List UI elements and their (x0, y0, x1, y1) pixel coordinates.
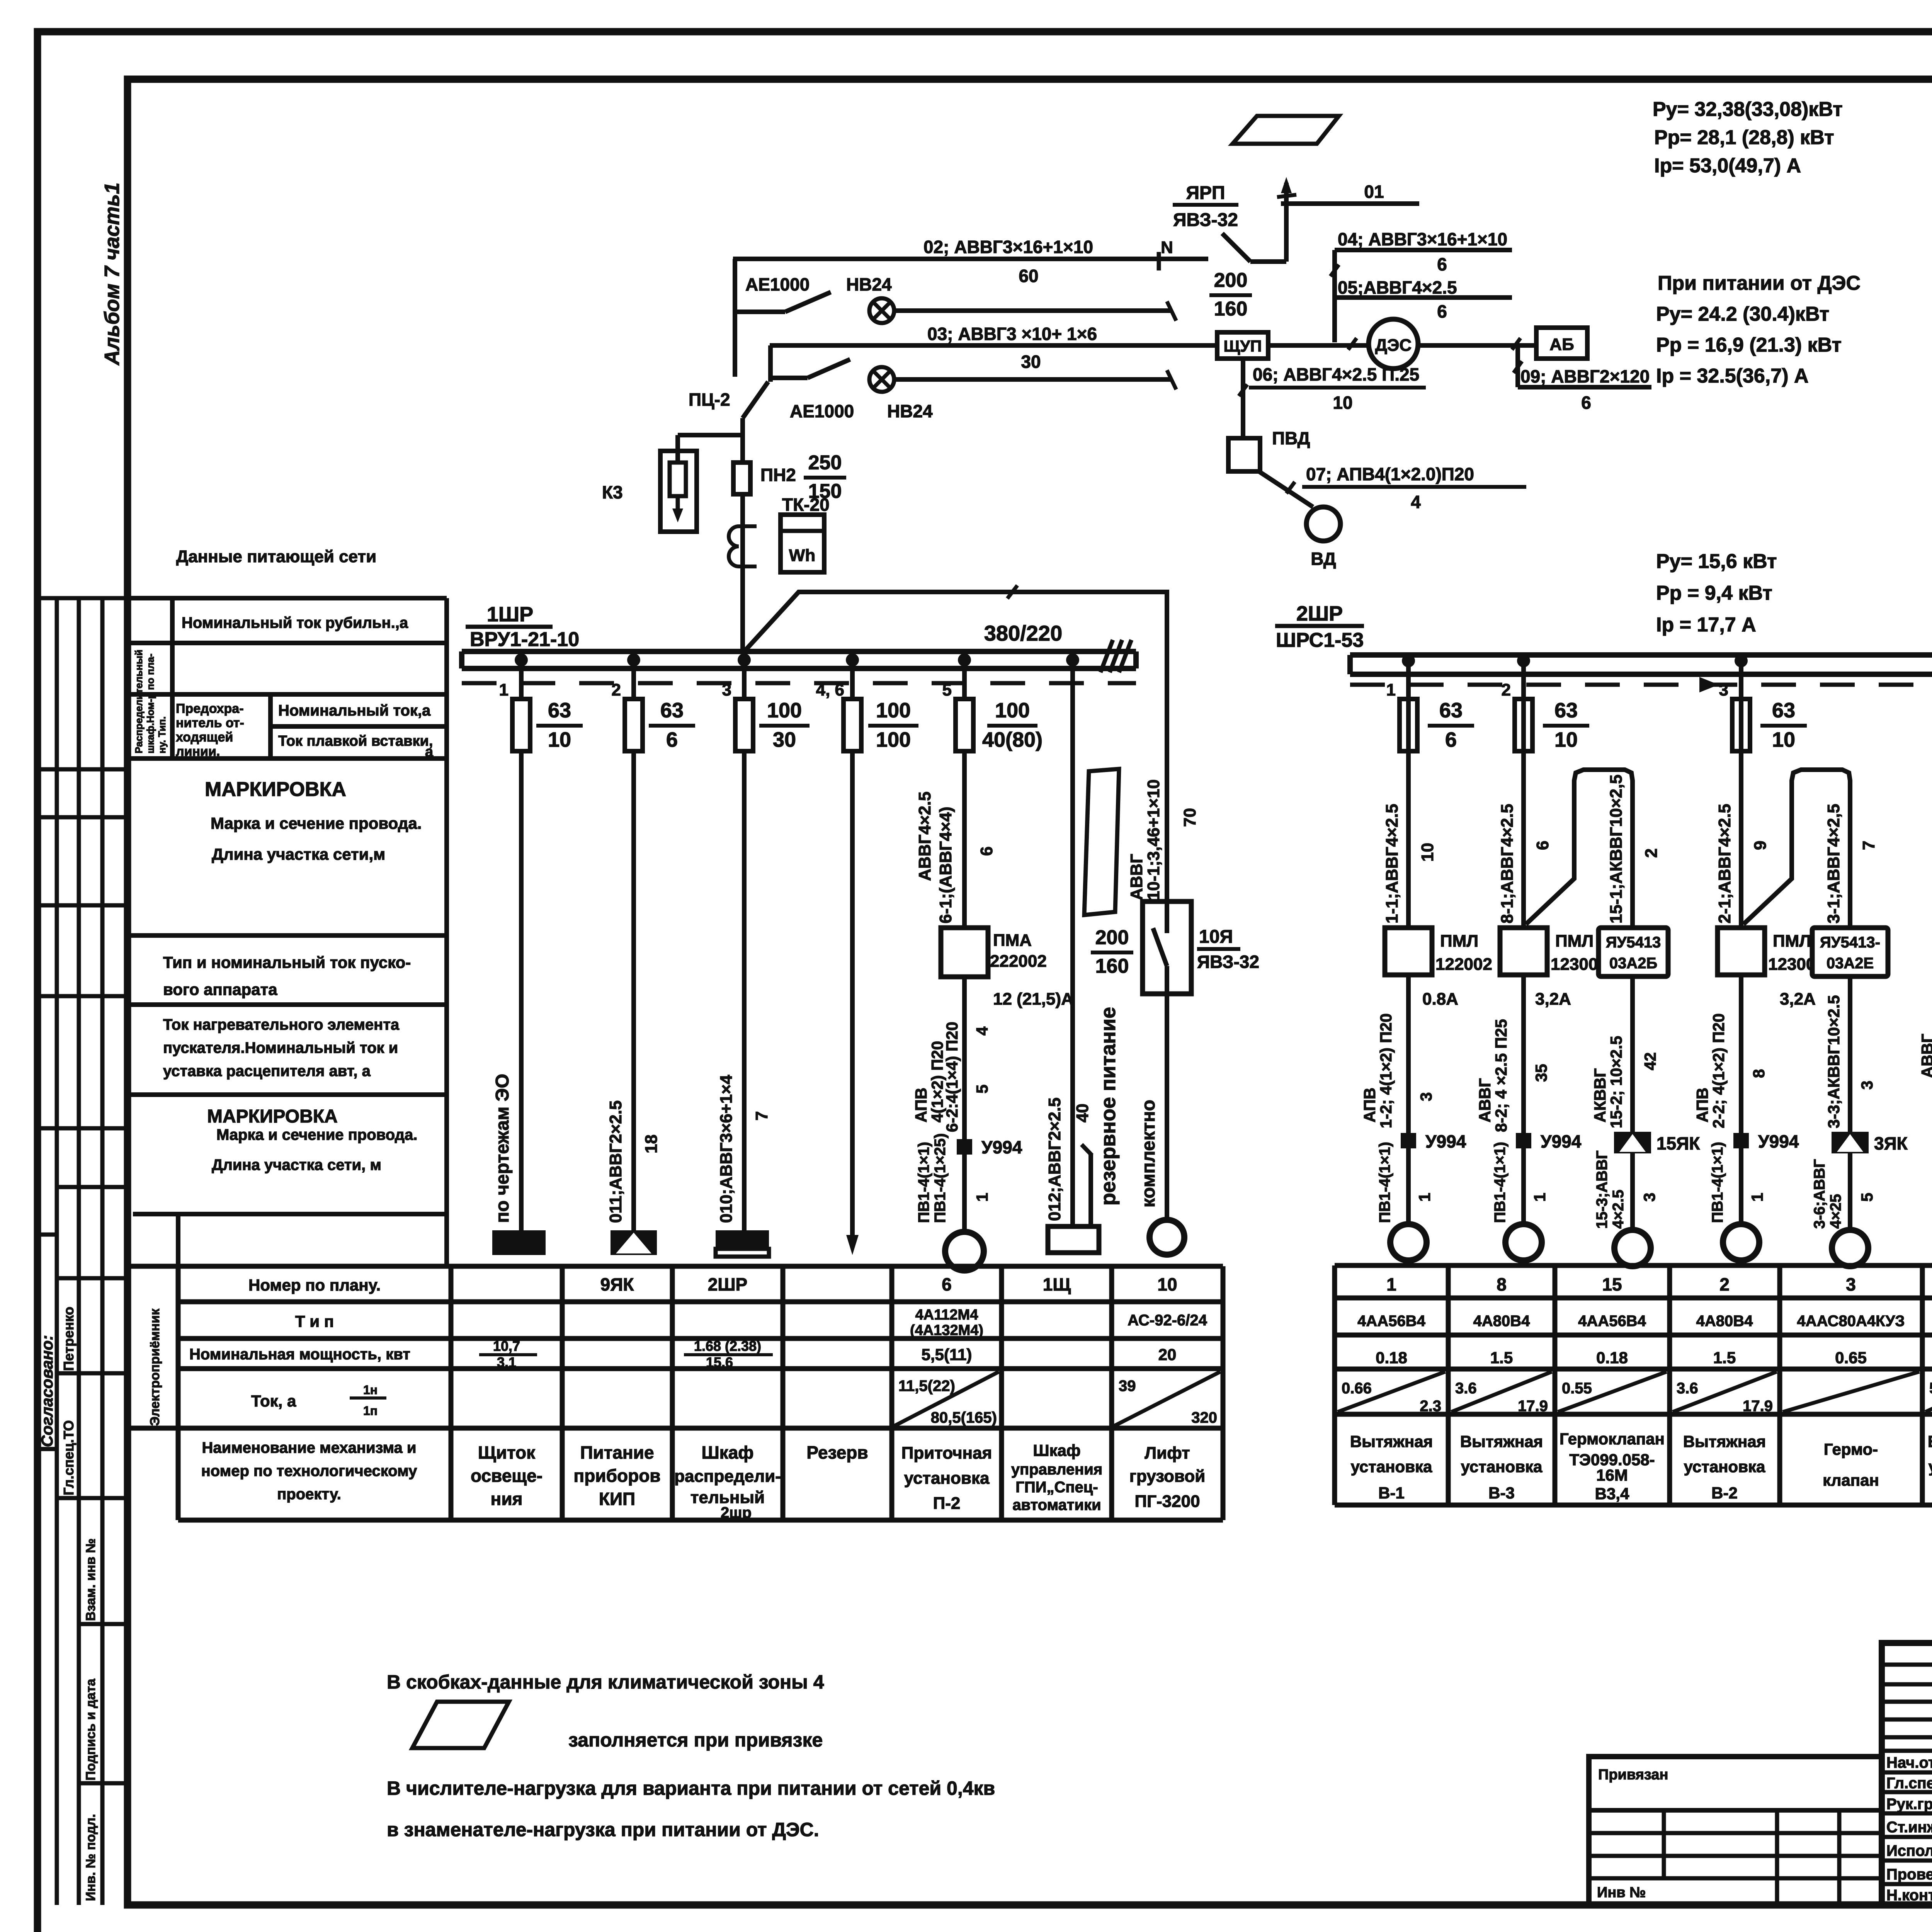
svg-text:2: 2 (1642, 849, 1661, 858)
box ЯУ5413-03А2Б (1599, 928, 1668, 976)
svg-text:Iр = 32.5(36,7) А: Iр = 32.5(36,7) А (1656, 365, 1809, 387)
svg-text:70: 70 (1180, 808, 1199, 827)
svg-text:0.55: 0.55 (1562, 1380, 1592, 1397)
box ЩУП (1217, 332, 1268, 359)
svg-text:установка: установка (904, 1469, 990, 1488)
svg-text:ПМА: ПМА (993, 931, 1032, 950)
svg-text:5: 5 (973, 1085, 991, 1094)
wire feeder5 mid (962, 977, 967, 1232)
wire drop 06 from ЩУП (1241, 359, 1245, 438)
svg-text:122002: 122002 (1435, 955, 1492, 974)
svg-text:Ток нагревательного элемента: Ток нагревательного элемента (163, 1016, 400, 1033)
svg-text:Ру= 24.2 (30.4)кВт: Ру= 24.2 (30.4)кВт (1656, 303, 1829, 325)
busbar 2ШР (1350, 652, 1932, 658)
svg-text:В3,4: В3,4 (1595, 1485, 1629, 1503)
svg-text:03А2Е: 03А2Е (1827, 955, 1874, 972)
svg-text:3: 3 (1846, 1274, 1856, 1294)
wire branch3 lower (1848, 976, 1852, 1230)
svg-text:3.6: 3.6 (1455, 1380, 1477, 1397)
svg-text:3ЯК: 3ЯК (1874, 1133, 1908, 1153)
svg-text:Номинальный ток,а: Номинальный ток,а (278, 702, 431, 719)
svg-text:Рр= 28,1 (28,8) кВт: Рр= 28,1 (28,8) кВт (1654, 126, 1834, 149)
svg-text:3: 3 (1417, 1092, 1435, 1101)
svg-text:3,1: 3,1 (497, 1354, 516, 1370)
node bus1 feeder 1Щ (1066, 653, 1079, 667)
svg-text:5.7: 5.7 (1929, 1380, 1932, 1397)
node bus1 feeder46 (846, 653, 859, 667)
svg-text:10Я: 10Я (1199, 927, 1233, 947)
svg-text:17.9: 17.9 (1743, 1398, 1773, 1415)
svg-text:ЯВЗ-32: ЯВЗ-32 (1197, 952, 1259, 972)
svg-text:63: 63 (1439, 699, 1463, 722)
wire line 03 to ЩУП (770, 343, 1217, 348)
svg-text:2.3: 2.3 (1420, 1398, 1441, 1415)
svg-text:ПВ1-4(1×25): ПВ1-4(1×25) (932, 1133, 949, 1223)
svg-text:4, 6: 4, 6 (816, 680, 844, 699)
svg-text:1: 1 (1748, 1193, 1766, 1202)
svg-text:клапан: клапан (1823, 1471, 1879, 1489)
panel Щиток освещения symbol (492, 1230, 546, 1255)
svg-text:4ААС80А4КУЗ: 4ААС80А4КУЗ (1797, 1313, 1905, 1330)
meter Wh box (781, 515, 824, 572)
svg-text:03; АВВГ3 ×10+ 1×6: 03; АВВГ3 ×10+ 1×6 (927, 324, 1097, 344)
wire drop 03 to node A (768, 345, 773, 382)
svg-text:АПВ: АПВ (1693, 1088, 1711, 1122)
switch ПЦ-2 (743, 382, 768, 418)
svg-text:ШРС1-53: ШРС1-53 (1276, 629, 1364, 651)
svg-text:15ЯК: 15ЯК (1656, 1133, 1700, 1153)
svg-text:Исполн.: Исполн. (1886, 1842, 1932, 1859)
left margin column strip (36, 598, 128, 1905)
switch box 10Я (1143, 901, 1191, 994)
generator ДЭС (1369, 319, 1418, 369)
svg-text:Номинальный ток рубильн.,а: Номинальный ток рубильн.,а (182, 614, 408, 631)
svg-text:4АА56В4: 4АА56В4 (1357, 1313, 1425, 1330)
fuse feeder46 (844, 699, 861, 751)
svg-text:Марка и сечение провода.: Марка и сечение провода. (216, 1126, 417, 1143)
svg-text:1-1;АВВГ4×2.5: 1-1;АВВГ4×2.5 (1383, 804, 1401, 923)
svg-text:06; АВВГ4×2.5 П.25: 06; АВВГ4×2.5 П.25 (1253, 364, 1419, 384)
right equipment table grid (1335, 1265, 1932, 1505)
fuse ПН2 (733, 463, 750, 494)
svg-text:1.68 (2.38): 1.68 (2.38) (694, 1338, 761, 1354)
svg-text:3: 3 (722, 680, 731, 699)
svg-text:Iр= 53,0(49,7) А: Iр= 53,0(49,7) А (1654, 155, 1801, 177)
left data table grid (128, 598, 447, 1266)
svg-text:1.5: 1.5 (1490, 1349, 1513, 1367)
node bus1 feeder1 (515, 653, 528, 667)
svg-text:ВРУ1-21-10: ВРУ1-21-10 (470, 628, 579, 651)
svg-text:4: 4 (1411, 492, 1421, 512)
wire branch15 lower (1630, 976, 1635, 1230)
svg-text:8: 8 (1750, 1069, 1768, 1078)
svg-text:НВ24: НВ24 (887, 401, 933, 421)
valve unit 3ЯК (1832, 1132, 1869, 1153)
wire feeder46 reserve (850, 660, 855, 1235)
svg-text:222002: 222002 (990, 952, 1047, 971)
svg-text:АКВВГ: АКВВГ (1591, 1068, 1609, 1122)
svg-text:В-2: В-2 (1711, 1484, 1738, 1502)
junction У994 b8 (1516, 1133, 1531, 1148)
svg-text:МАРКИРОВКА: МАРКИРОВКА (205, 778, 346, 801)
svg-text:В скобках-данные для климатиче: В скобках-данные для климатической зоны … (387, 1671, 824, 1693)
svg-text:15-1;АКВВГ10×2,5: 15-1;АКВВГ10×2,5 (1607, 774, 1626, 923)
motor ВД (1306, 507, 1340, 541)
motor П-2 (945, 1232, 984, 1270)
node bus2 feeder1 (1402, 654, 1415, 667)
motor В-2 (1723, 1224, 1759, 1260)
contactor ПМЛ branch1 (1385, 928, 1432, 975)
svg-text:Питание: Питание (580, 1442, 654, 1463)
svg-text:12 (21,5)А: 12 (21,5)А (993, 990, 1073, 1009)
svg-text:Петренко: Петренко (61, 1307, 77, 1371)
wire reserve stub into 1Щ (1088, 1154, 1093, 1226)
svg-text:грузовой: грузовой (1129, 1467, 1206, 1486)
svg-text:1Щ: 1Щ (1043, 1274, 1071, 1294)
svg-text:1: 1 (1386, 680, 1396, 699)
svg-text:63: 63 (660, 699, 684, 722)
svg-text:Рр = 9,4 кВт: Рр = 9,4 кВт (1656, 582, 1772, 604)
node bus2 feeder2 (1517, 654, 1530, 667)
fuse bus2 feeder3 (1732, 699, 1750, 751)
contactor ПМА feeder5 (941, 928, 988, 977)
svg-text:ну. Тип.: ну. Тип. (156, 716, 168, 753)
svg-text:42: 42 (1641, 1052, 1659, 1070)
wire feeder 1Щ (1070, 668, 1075, 1226)
svg-text:ВД: ВД (1311, 549, 1336, 569)
svg-text:3: 3 (1719, 680, 1728, 699)
left equipment table grid (128, 1266, 1223, 1520)
svg-text:в знаменателе-нагрузка при: в знаменателе-нагрузка при питании от ДЭ… (387, 1819, 819, 1840)
svg-text:200: 200 (1095, 927, 1129, 949)
svg-text:5: 5 (1858, 1193, 1876, 1202)
wire riser ЯРП with arrow (1284, 183, 1289, 262)
fuse feeder5 (956, 699, 973, 751)
tap loop to branch3 (1743, 770, 1850, 928)
svg-text:80,5(165): 80,5(165) (931, 1409, 997, 1426)
svg-text:Согласовано:: Согласовано: (38, 1335, 56, 1447)
busbar1 dashed outline (462, 681, 1136, 685)
svg-text:установка: установка (1929, 1458, 1932, 1476)
svg-text:1п: 1п (363, 1404, 378, 1418)
switch ЯРП blade (1222, 233, 1250, 262)
svg-text:В числителе-нагрузка для вари: В числителе-нагрузка для варианта при пи… (387, 1777, 995, 1799)
svg-text:Предохра-: Предохра- (176, 701, 244, 716)
svg-text:15-3;АВВГ: 15-3;АВВГ (1594, 1150, 1611, 1229)
svg-text:Взам. инв №: Взам. инв № (83, 1538, 98, 1621)
motor branch3 (1832, 1230, 1868, 1266)
svg-text:4А80В4: 4А80В4 (1473, 1313, 1531, 1330)
svg-text:07; АПВ4(1×2.0)П20: 07; АПВ4(1×2.0)П20 (1306, 464, 1474, 484)
svg-text:шкаф.Ном-р по пла-: шкаф.Ном-р по пла- (145, 653, 156, 753)
panel 1Щ symbol (1048, 1226, 1099, 1253)
svg-text:ПМЛ: ПМЛ (1555, 932, 1594, 951)
svg-text:6: 6 (1533, 841, 1552, 850)
motor В-3 (1505, 1224, 1542, 1260)
svg-text:100: 100 (876, 699, 911, 722)
svg-text:10: 10 (548, 728, 571, 751)
svg-text:заполняется при привязке: заполняется при привязке (568, 1729, 823, 1751)
motor branch15 (1614, 1230, 1651, 1266)
svg-text:7: 7 (752, 1111, 771, 1121)
motor ПГ-3200 (1150, 1220, 1184, 1255)
svg-text:ЯВЗ-32: ЯВЗ-32 (1173, 210, 1238, 230)
svg-text:Ру= 15,6 кВт: Ру= 15,6 кВт (1656, 550, 1777, 573)
svg-text:40: 40 (1073, 1104, 1092, 1122)
fuse bus2 feeder1 (1400, 699, 1417, 751)
svg-text:АВВГ: АВВГ (1476, 1078, 1494, 1122)
wire line 04 (1335, 248, 1512, 252)
svg-text:ТК-20: ТК-20 (782, 495, 830, 515)
svg-text:10: 10 (1157, 1274, 1177, 1294)
svg-text:7: 7 (1859, 841, 1878, 850)
svg-text:3-3;АКВВГ10×2.5: 3-3;АКВВГ10×2.5 (1825, 995, 1843, 1128)
wire drop from 02 to ПЦ-2 (733, 259, 737, 377)
svg-text:ПВ1-4(1×1): ПВ1-4(1×1) (1709, 1142, 1726, 1223)
svg-text:N: N (1161, 238, 1173, 257)
svg-text:100: 100 (995, 699, 1030, 722)
svg-text:Шкаф: Шкаф (701, 1442, 753, 1463)
wire feeder5 upper (962, 668, 967, 928)
svg-text:пускателя.Номинальный ток и: пускателя.Номинальный ток и (163, 1039, 398, 1056)
svg-text:10,7: 10,7 (493, 1338, 520, 1354)
svg-text:АВВГ: АВВГ (1918, 1034, 1932, 1078)
svg-text:1: 1 (1415, 1193, 1434, 1202)
lamp НВ24 lower (869, 367, 894, 392)
svg-text:У994: У994 (981, 1137, 1022, 1157)
svg-text:16М: 16М (1596, 1466, 1628, 1484)
wire ДЭС to АБ (1418, 343, 1536, 348)
fuse feeder2 (625, 699, 643, 751)
svg-text:4×2.5: 4×2.5 (1610, 1190, 1627, 1229)
svg-text:6-1;(АВВГ4×4): 6-1;(АВВГ4×4) (936, 807, 955, 923)
svg-text:02; АВВГ3×16+1×10: 02; АВВГ3×16+1×10 (923, 237, 1093, 257)
svg-text:АПВ: АПВ (1361, 1088, 1379, 1122)
wire branch plan8 (1521, 661, 1526, 1224)
svg-text:15: 15 (1602, 1274, 1622, 1294)
fuse feeder1 (512, 699, 530, 751)
svg-text:установка: установка (1684, 1458, 1765, 1476)
note parallelogram (412, 1702, 509, 1748)
svg-text:У994: У994 (1541, 1131, 1582, 1151)
svg-text:2: 2 (612, 680, 621, 699)
wire ПВД to ВД (1258, 471, 1313, 507)
svg-text:АВВГ4×2.5: АВВГ4×2.5 (915, 791, 934, 881)
svg-text:1ШР: 1ШР (487, 603, 533, 626)
node bus1 feeder5 (958, 653, 971, 667)
svg-text:АЕ1000: АЕ1000 (790, 401, 854, 421)
svg-text:10: 10 (1772, 728, 1795, 751)
svg-text:Привязан: Привязан (1598, 1767, 1668, 1783)
svg-text:резервное питание: резервное питание (1097, 1007, 1120, 1206)
svg-text:10: 10 (1554, 728, 1578, 751)
svg-text:ПЦ-2: ПЦ-2 (689, 389, 730, 410)
contactor ПМЛ branch2 (1718, 928, 1765, 975)
svg-text:АВВГ: АВВГ (1127, 854, 1146, 900)
svg-text:Марка и сечение провода.: Марка и сечение провода. (211, 814, 422, 832)
box АБ (1536, 328, 1587, 359)
svg-text:4А112М4: 4А112М4 (915, 1307, 978, 1323)
svg-text:ПН2: ПН2 (760, 465, 796, 485)
svg-text:Длина участка сети,м: Длина участка сети,м (212, 845, 385, 863)
svg-text:2ШР: 2ШР (708, 1274, 748, 1294)
svg-text:Рук.груп: Рук.груп (1886, 1796, 1932, 1813)
svg-text:ПМЛ: ПМЛ (1773, 932, 1811, 951)
svg-text:8-2; 4 ×2.5 П25: 8-2; 4 ×2.5 П25 (1492, 1019, 1510, 1132)
svg-text:АЕ1000: АЕ1000 (745, 274, 810, 294)
svg-text:Гл.спец.: Гл.спец. (1886, 1775, 1932, 1792)
svg-text:АС-92-6/24: АС-92-6/24 (1128, 1312, 1207, 1329)
svg-text:320: 320 (1191, 1409, 1217, 1426)
svg-text:Приточная: Приточная (901, 1444, 992, 1463)
svg-text:03А2Б: 03А2Б (1609, 955, 1657, 972)
svg-text:Провер.: Провер. (1886, 1866, 1932, 1883)
svg-text:18: 18 (642, 1134, 661, 1153)
svg-text:8-1;АВВГ4×2.5: 8-1;АВВГ4×2.5 (1498, 804, 1517, 923)
svg-text:по чертежам ЭО: по чертежам ЭО (492, 1074, 513, 1223)
svg-text:0.65: 0.65 (1835, 1349, 1867, 1367)
svg-text:1н: 1н (363, 1383, 378, 1397)
svg-text:6: 6 (1437, 254, 1447, 274)
svg-text:15.6: 15.6 (706, 1354, 733, 1370)
svg-text:2: 2 (1502, 680, 1511, 699)
svg-text:К3: К3 (602, 482, 623, 502)
svg-text:освеще-: освеще- (471, 1466, 543, 1486)
fuse feeder3 (735, 699, 753, 751)
svg-text:уставка расцепителя авт, а: уставка расцепителя авт, а (163, 1063, 371, 1080)
wire line 01 (1281, 201, 1419, 206)
svg-text:1: 1 (1531, 1193, 1549, 1202)
svg-text:1: 1 (499, 680, 509, 699)
svg-text:Номинальная мощность, квт: Номинальная мощность, квт (189, 1346, 410, 1363)
svg-text:В-3: В-3 (1488, 1484, 1515, 1502)
svg-text:63: 63 (1772, 699, 1795, 722)
svg-text:Iр = 17,7 А: Iр = 17,7 А (1656, 614, 1756, 636)
wire branch to К3 (678, 433, 743, 437)
svg-text:63: 63 (1554, 699, 1578, 722)
svg-text:3: 3 (1858, 1081, 1876, 1090)
svg-text:1.5: 1.5 (1713, 1349, 1736, 1367)
svg-text:Щиток: Щиток (478, 1442, 536, 1463)
fuse bus2 feeder2 (1515, 699, 1532, 751)
wire feeder3 (742, 668, 747, 1230)
svg-text:установка: установка (1351, 1458, 1432, 1476)
svg-text:2: 2 (1719, 1274, 1730, 1294)
svg-text:вого аппарата: вого аппарата (163, 980, 277, 998)
svg-text:30: 30 (773, 728, 796, 751)
svg-text:АБ: АБ (1549, 335, 1574, 354)
svg-text:01: 01 (1364, 182, 1384, 202)
svg-text:8: 8 (1497, 1274, 1507, 1294)
svg-text:При питании от ДЭС: При питании от ДЭС (1658, 272, 1861, 294)
svg-text:2ШР: 2ШР (1296, 602, 1343, 625)
wire drop 09 from АБ (1515, 345, 1520, 387)
svg-text:Данные питающей сети: Данные питающей сети (176, 547, 376, 566)
svg-text:39: 39 (1119, 1378, 1136, 1395)
svg-text:2-1;АВВГ4×2.5: 2-1;АВВГ4×2.5 (1715, 804, 1734, 923)
breaker АЕ1000 lower (770, 376, 808, 380)
svg-text:60: 60 (1019, 266, 1038, 286)
svg-text:Тип и номинальный ток пуско-: Тип и номинальный ток пуско- (163, 953, 411, 971)
svg-text:линии.: линии. (176, 744, 220, 759)
svg-text:35: 35 (1532, 1064, 1550, 1082)
svg-text:3: 3 (1640, 1193, 1658, 1202)
svg-text:П-2: П-2 (933, 1494, 961, 1513)
svg-text:Лифт: Лифт (1145, 1444, 1190, 1463)
svg-text:4×25: 4×25 (1827, 1194, 1844, 1229)
svg-text:ПМЛ: ПМЛ (1440, 932, 1478, 951)
wire line 02 to N (733, 257, 1208, 261)
svg-text:0.66: 0.66 (1342, 1380, 1372, 1397)
svg-text:Электроприёмник: Электроприёмник (148, 1308, 162, 1426)
wire drop 04-05 to main (1332, 250, 1337, 342)
svg-text:200: 200 (1214, 269, 1248, 292)
wire lamp upper to junction (894, 308, 1172, 313)
svg-text:Ру= 32,38(33,08)кВт: Ру= 32,38(33,08)кВт (1653, 98, 1843, 121)
busbar2 dashed outline (1350, 683, 1932, 687)
svg-text:Длина участка сети, м: Длина участка сети, м (212, 1156, 381, 1173)
wire feeder2 (631, 660, 636, 1230)
svg-text:ходящей: ходящей (176, 730, 233, 745)
svg-text:15-2; 10×2.5: 15-2; 10×2.5 (1607, 1036, 1625, 1128)
svg-text:20: 20 (1158, 1345, 1177, 1364)
svg-text:1: 1 (973, 1193, 991, 1202)
wire branch plan1 (1406, 661, 1411, 1224)
svg-text:160: 160 (1095, 955, 1129, 978)
svg-text:ния: ния (491, 1489, 523, 1509)
contactor ПМЛ branch8 (1500, 928, 1547, 975)
svg-text:10: 10 (1333, 393, 1352, 413)
svg-text:Гл.спец.ТО: Гл.спец.ТО (61, 1420, 77, 1495)
wire lamp lower to junction (894, 377, 1172, 382)
svg-text:ЯУ5413: ЯУ5413 (1606, 934, 1661, 951)
svg-text:Нач.отд: Нач.отд (1886, 1754, 1932, 1771)
svg-text:11,5(22): 11,5(22) (898, 1378, 955, 1395)
svg-text:В-1: В-1 (1378, 1484, 1405, 1502)
svg-text:3-1;АВВГ4×2,5: 3-1;АВВГ4×2,5 (1824, 804, 1843, 923)
wire main drop to bus 1 (740, 418, 745, 653)
svg-text:6: 6 (1437, 301, 1447, 321)
svg-text:управления: управления (1011, 1461, 1102, 1478)
wire 10Я to motor (1165, 994, 1169, 1219)
lamp НВ24 upper (869, 298, 894, 323)
box 9ЯК symbol (611, 1230, 657, 1255)
svg-text:40(80): 40(80) (982, 728, 1043, 751)
svg-text:Шкаф: Шкаф (1033, 1441, 1080, 1459)
reserve feed loop from bus1 (744, 592, 1167, 901)
svg-text:Номер по плану.: Номер по плану. (248, 1276, 381, 1294)
svg-text:Инв. № подл.: Инв. № подл. (83, 1814, 98, 1901)
svg-text:160: 160 (1214, 298, 1248, 320)
svg-text:Инв №: Инв № (1597, 1884, 1646, 1901)
svg-text:6: 6 (977, 847, 996, 856)
junction У994 b1 (1401, 1133, 1416, 1148)
svg-text:Вытяжная: Вытяжная (1350, 1432, 1433, 1451)
svg-text:ПВ1-4(1×1): ПВ1-4(1×1) (1492, 1142, 1509, 1223)
svg-text:Н.контр: Н.контр (1886, 1887, 1932, 1904)
svg-text:30: 30 (1021, 352, 1041, 372)
node bus1 feeder2 (627, 653, 640, 667)
box ЯУ5413-03А2Е (1812, 928, 1888, 976)
svg-text:4: 4 (973, 1026, 991, 1036)
motor В-1 (1390, 1224, 1427, 1260)
svg-text:4АА56В4: 4АА56В4 (1578, 1313, 1646, 1330)
svg-text:4А80В4: 4А80В4 (1696, 1313, 1753, 1330)
svg-text:номер по технологическому: номер по технологическому (201, 1463, 418, 1480)
svg-text:автоматики: автоматики (1012, 1497, 1101, 1514)
wire ЯРП stub (1250, 259, 1286, 264)
svg-text:приборов: приборов (573, 1466, 660, 1486)
